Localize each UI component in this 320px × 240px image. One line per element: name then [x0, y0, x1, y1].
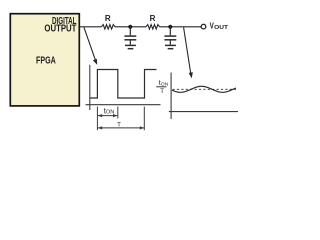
resistor R2 — [146, 25, 160, 30]
terminal VOUT (open circle) — [201, 24, 206, 29]
wire R2 to VOUT terminal — [160, 26, 202, 28]
ground under C1 — [125, 45, 136, 48]
svg-text:OUTPUT: OUTPUT — [44, 24, 76, 35]
svg-text:ON: ON — [106, 109, 114, 115]
svg-text:T: T — [160, 88, 164, 95]
wire R1 to R2 — [115, 26, 146, 28]
dimension extension line at rising edge — [96, 107, 98, 131]
arrow from VOUT to filtered waveform — [184, 28, 193, 79]
dashed average level line — [173, 88, 237, 90]
dimension arrow tON — [98, 114, 117, 117]
capacitor C1 — [124, 27, 136, 45]
FPGA U1 block — [10, 14, 79, 106]
wire FPGA output to R1 — [80, 26, 102, 28]
filtered output ripple wave — [172, 86, 236, 92]
filtered plot horizontal axis — [169, 111, 238, 113]
resistor R1 — [101, 25, 115, 30]
capacitor C2 — [164, 27, 176, 45]
svg-text:T: T — [117, 121, 121, 128]
svg-text:R: R — [150, 14, 156, 23]
filtered plot vertical axis — [170, 73, 172, 120]
svg-text:FPGA: FPGA — [36, 55, 56, 66]
dimension extension line at next rising edge — [143, 107, 145, 131]
svg-text:OUT: OUT — [214, 25, 229, 31]
svg-text:R: R — [105, 14, 111, 23]
arrow from digital output to PWM waveform — [84, 28, 97, 65]
dimension arrow T — [98, 126, 144, 129]
PWM plot vertical axis — [89, 65, 91, 110]
ground under C2 — [165, 45, 176, 48]
dimension extension line at falling edge — [117, 107, 119, 119]
node junction 2 — [168, 25, 172, 29]
PWM square wave — [90, 70, 157, 99]
PWM plot horizontal axis — [86, 104, 161, 106]
node junction 1 — [128, 25, 132, 29]
